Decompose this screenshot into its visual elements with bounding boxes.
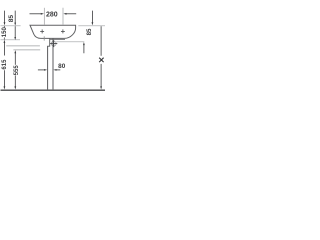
tap hole cross right bbox=[61, 29, 65, 33]
dim 615 top arrow (up) bbox=[4, 40, 6, 56]
underside extension line right bbox=[56, 41, 84, 43]
dim 280 line right tail with arrow bbox=[63, 13, 76, 15]
dim 280 extension left bbox=[43, 8, 45, 25]
top-left dim arrow line A bbox=[4, 11, 6, 26]
svg-text:150: 150 bbox=[2, 27, 8, 38]
outlet level extension line bbox=[13, 49, 40, 51]
pop-up rod tick bbox=[43, 36, 45, 40]
dim 280 line left tail with arrow bbox=[30, 13, 44, 15]
svg-text:85: 85 bbox=[86, 28, 93, 35]
right down arrow at rim bbox=[92, 11, 94, 26]
trap standpipe left bbox=[47, 46, 49, 89]
right height dim lower segment with floor arrow bbox=[100, 64, 102, 90]
svg-text:80: 80 bbox=[58, 63, 66, 70]
variable mark x bbox=[99, 58, 103, 62]
drain crosshair bbox=[50, 40, 57, 47]
rim level extension line left bbox=[1, 25, 21, 27]
dim 150 line lower segment bbox=[3, 37, 5, 39]
dim 80 pipe left tail with arrow bbox=[38, 69, 47, 71]
svg-text:555: 555 bbox=[14, 65, 20, 76]
bowl bottom extension line left bbox=[1, 39, 21, 41]
dim 615 lower segment with floor arrow bbox=[4, 70, 6, 89]
trap standpipe right bbox=[52, 39, 54, 90]
dim 555 lower segment with floor arrow bbox=[14, 75, 16, 89]
basin outline front view bbox=[30, 25, 76, 38]
svg-text:615: 615 bbox=[2, 59, 8, 70]
right height dim upper segment bbox=[100, 26, 102, 56]
tap hole cross left bbox=[40, 29, 44, 33]
svg-text:280: 280 bbox=[46, 11, 58, 18]
dim 280 extension right bbox=[62, 8, 64, 25]
dim 150 line upper segment bbox=[3, 26, 5, 28]
trap top step bbox=[47, 45, 50, 47]
underside up arrow bbox=[83, 42, 85, 53]
top-left dim arrow line B bbox=[14, 11, 16, 40]
trap top extension line bbox=[6, 45, 40, 47]
svg-text:85: 85 bbox=[8, 15, 15, 23]
dim 80 pipe right tail with arrow bbox=[53, 69, 60, 71]
floor line bbox=[1, 89, 106, 91]
rim level extension line right bbox=[78, 25, 105, 27]
drain tailpiece bbox=[49, 39, 51, 47]
dim 555 top arrow (up) bbox=[14, 50, 16, 65]
basin under-edge line bbox=[50, 38, 65, 40]
